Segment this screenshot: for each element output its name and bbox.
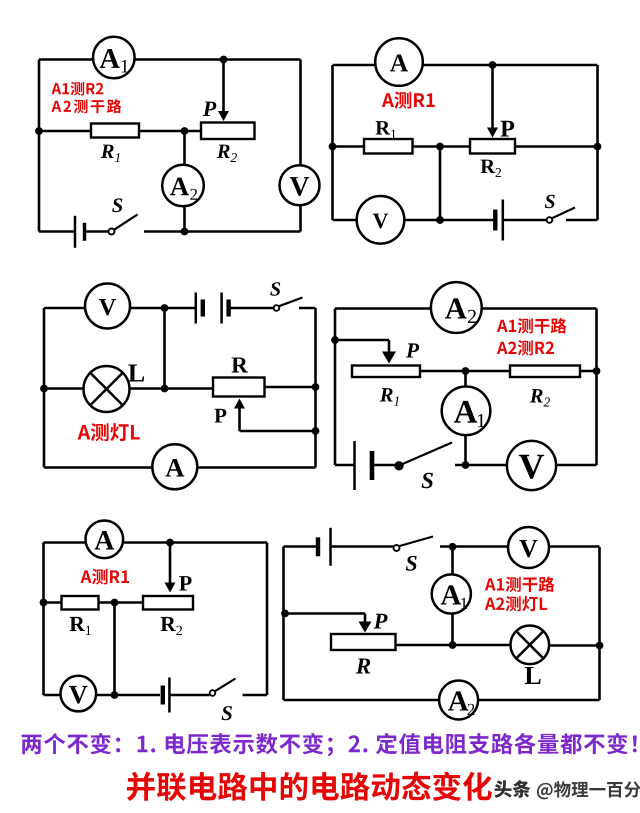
red note A measures lamp L xyxy=(78,423,140,441)
circuit 1 wire left vertical xyxy=(38,60,41,232)
circuit 5 wire top horizontal xyxy=(44,541,268,544)
rheostat R slider arrow circuit 3 (up) xyxy=(234,399,245,432)
wire lamp row left xyxy=(44,387,84,390)
node slider tap circuit 1 xyxy=(220,56,228,64)
wire slider tap horizontal circuit 6 xyxy=(285,612,365,615)
label P circuit 4 xyxy=(406,343,419,357)
red note A2 measures lamp L circuit 6 xyxy=(485,596,547,611)
label S circuit 6 xyxy=(406,556,417,571)
node left middle circuit 5 xyxy=(40,599,48,607)
voltmeter V circuit 6 xyxy=(508,527,549,568)
wire R to right circuit 3 xyxy=(265,386,316,389)
switch pivot circuit 3 xyxy=(274,305,280,311)
lamp L circuit 6 xyxy=(511,626,550,665)
wire right vertical circuit 5 xyxy=(266,543,269,696)
wire bottom left segment circuit 4 xyxy=(335,464,355,467)
node slider tap circuit 2 xyxy=(489,61,497,69)
wire battery to switch circuit 4 xyxy=(372,464,395,467)
ammeter A circuit 3 xyxy=(152,444,197,489)
label S circuit 1 xyxy=(112,198,122,212)
node left middle circuit 1 xyxy=(35,127,43,135)
node left lamp row xyxy=(40,385,48,393)
circuit 4 wire left vertical xyxy=(334,309,337,466)
purple summary text xyxy=(22,733,637,756)
node top junction circuit 3 xyxy=(161,304,169,312)
wire lamp to right circuit 6 xyxy=(549,644,600,647)
watermark toutiao xyxy=(494,780,530,798)
wire center vertical circuit 5 xyxy=(113,603,116,696)
voltmeter V circuit 2 xyxy=(357,196,405,244)
wire R2 to right circuit 2 xyxy=(515,145,598,148)
wire switch to right circuit 2 xyxy=(566,219,598,222)
voltmeter V circuit 4 xyxy=(507,441,556,490)
ammeter A2 xyxy=(162,165,204,207)
switch blade circuit 4 xyxy=(403,443,453,465)
node lamp row junction xyxy=(161,385,169,393)
wire right vertical circuit 4 xyxy=(595,309,598,466)
label L circuit 6 xyxy=(525,667,541,684)
wire R1 to R2 circuit 5 xyxy=(99,601,144,604)
switch blade circuit 3 xyxy=(279,298,303,307)
circuit 2 wire top horizontal xyxy=(333,64,598,67)
node slider tap circuit 6 xyxy=(281,610,289,618)
wire switch to right circuit 4 xyxy=(455,464,597,467)
circuit 1 wire top horizontal xyxy=(39,58,301,61)
label R1 circuit 2 xyxy=(376,121,391,134)
wire A1 branch circuit 6 xyxy=(451,547,454,646)
ammeter A circuit 5 xyxy=(86,521,124,559)
switch pivot circuit 5 xyxy=(210,690,216,696)
ammeter A circuit 2 xyxy=(375,38,423,86)
label P circuit 5 xyxy=(179,576,191,590)
wire bottom circuit 3 xyxy=(44,466,316,469)
red note A1 measures main branch circuit 4 xyxy=(497,318,567,334)
circuit 6 wire top left segment xyxy=(284,545,319,548)
red note A2 measures R2 circuit 4 xyxy=(497,340,554,355)
label P circuit 2 xyxy=(501,121,515,137)
wire lamp to junction circuit 3 xyxy=(130,387,214,390)
switch pivot filled circuit 4 xyxy=(394,461,403,470)
label R1 circuit 1 xyxy=(101,145,114,158)
wire bottom left segment circuit 2 xyxy=(333,219,496,222)
circuit 5 wire left vertical xyxy=(42,543,45,696)
rheostat R1 circuit 4 xyxy=(352,366,420,378)
battery cell 1 circuit 3 xyxy=(196,293,203,324)
battery circuit 2 xyxy=(495,200,503,241)
wire right vertical circuit 6 xyxy=(598,547,601,700)
label R2 circuit 2 xyxy=(481,160,496,173)
node A2 branch bottom xyxy=(181,228,189,236)
label R2 circuit 1 xyxy=(217,145,230,158)
resistor R1 circuit 5 xyxy=(62,596,99,610)
circuit 3 wire top left segment xyxy=(44,307,196,310)
resistor R2 circuit 4 xyxy=(510,366,580,378)
label R1 circuit 4 xyxy=(380,388,393,401)
red title xyxy=(127,772,492,801)
ammeter A2 circuit 6 xyxy=(439,681,478,720)
wire right vertical circuit 1 xyxy=(299,60,302,232)
battery circuit 4 xyxy=(355,441,373,490)
wire switch to corner circuit 3 xyxy=(299,307,316,310)
label R circuit 3 xyxy=(232,357,248,372)
ammeter A2 circuit 4 xyxy=(431,282,482,333)
label S circuit 3 xyxy=(270,282,280,295)
node right middle circuit 4 xyxy=(593,367,601,375)
ammeter A1 circuit 6 xyxy=(432,574,471,613)
rheostat R2 circuit 2 xyxy=(470,139,515,154)
wire bottom circuit 6 xyxy=(284,699,600,702)
red note A1 measures R2 xyxy=(52,82,104,96)
wire switch to junction circuit 6 xyxy=(440,545,600,548)
rheostat R2 circuit 5 xyxy=(143,596,193,610)
voltmeter V circuit 3 xyxy=(85,284,130,329)
wire V-row to lamp row link xyxy=(163,308,166,389)
resistor R1 circuit 1 xyxy=(91,124,139,138)
red note A2 measures main branch xyxy=(52,99,122,113)
node right slider row circuit 3 xyxy=(312,427,320,435)
node A1 top junction circuit 6 xyxy=(449,543,457,551)
wire battery to switch circuit 2 xyxy=(503,219,547,222)
wire R1 to R2 circuit 2 xyxy=(413,145,471,148)
wire R1 to junction circuit 4 xyxy=(420,370,510,373)
wire switch to right circuit 5 xyxy=(243,694,268,697)
node middle junction circuit 5 xyxy=(111,599,119,607)
wire R to lamp circuit 6 xyxy=(396,644,512,647)
switch blade circuit 2 xyxy=(552,208,575,219)
wire slider tap horizontal circuit 4 xyxy=(335,339,389,342)
label R1 circuit 5 xyxy=(70,617,85,631)
red note A measures R1 circuit 5 xyxy=(81,569,130,585)
wire center vertical circuit 2 xyxy=(439,147,442,221)
rheostat R circuit 6 xyxy=(331,634,396,650)
voltmeter V circuit 1 xyxy=(280,165,320,205)
switch blade circuit 5 xyxy=(215,679,236,692)
node middle junction circuit 4 xyxy=(462,367,470,375)
node bottom junction circuit 5 xyxy=(111,691,119,699)
circuit 2 wire left vertical xyxy=(331,65,334,220)
label P circuit 1 xyxy=(203,102,217,116)
switch pivot circuit 1 xyxy=(109,229,115,235)
circuit 4 wire top horizontal xyxy=(335,307,597,310)
ammeter A1 circuit 4 xyxy=(442,387,491,436)
battery cell 2 circuit 3 xyxy=(222,293,229,324)
node A1 bottom circuit 4 xyxy=(462,461,470,469)
node A2 branch top xyxy=(181,127,189,135)
rheostat R2 slider arrow circuit 2 xyxy=(487,65,498,138)
wire A1 branch circuit 4 xyxy=(464,371,467,465)
label S circuit 5 xyxy=(222,706,232,720)
voltmeter V circuit 5 xyxy=(61,676,97,712)
wire battery to switch circuit 1 xyxy=(85,230,109,233)
circuit 3 wire left vertical xyxy=(43,308,46,468)
label S circuit 4 xyxy=(422,473,433,488)
switch blade circuit 6 xyxy=(400,537,434,547)
wire middle left segment circuit 2 xyxy=(333,145,365,148)
battery circuit 1 xyxy=(75,216,85,248)
wire middle left segment circuit 5 xyxy=(44,601,62,604)
switch pivot circuit 6 xyxy=(394,545,400,551)
node bottom junction circuit 2 xyxy=(436,216,444,224)
label R circuit 6 xyxy=(356,658,370,673)
wire bottom left segment circuit 1 xyxy=(39,230,75,233)
wire middle left segment circuit 1 xyxy=(39,130,91,133)
wire switch to right circuit 1 xyxy=(144,230,301,233)
wire battery to switch circuit 5 xyxy=(169,694,209,697)
battery circuit 6 xyxy=(318,528,331,566)
rheostat R slider arrow circuit 6 xyxy=(359,614,372,633)
ammeter A1 xyxy=(93,37,135,79)
node slider tap circuit 4 xyxy=(331,336,339,344)
rheostat R circuit 3 xyxy=(213,378,265,397)
wire right vertical circuit 3 xyxy=(314,308,317,468)
switch blade circuit 1 xyxy=(114,215,138,230)
label R2 circuit 4 xyxy=(530,389,543,402)
wire A2 branch xyxy=(183,131,186,232)
resistor R1 circuit 2 xyxy=(364,139,413,154)
wire R2 to right circuit 4 xyxy=(580,370,597,373)
red note A measures R1 circuit 2 xyxy=(382,91,435,108)
node left middle circuit 2 xyxy=(329,143,337,151)
node right lamp row xyxy=(312,383,320,391)
label S circuit 2 xyxy=(545,195,555,208)
label R2 circuit 5 xyxy=(161,617,176,631)
wire slider to right circuit 3 xyxy=(240,430,316,433)
wire right vertical circuit 2 xyxy=(596,65,599,220)
label P circuit 3 xyxy=(214,409,226,423)
node middle junction circuit 2 xyxy=(436,143,444,151)
wire R1 to R2 circuit 1 xyxy=(139,130,201,133)
label P circuit 6 xyxy=(374,614,388,629)
node right middle circuit 2 xyxy=(594,143,602,151)
node A1 bottom junction circuit 6 xyxy=(449,641,457,649)
lamp L circuit 3 xyxy=(84,366,130,412)
switch pivot circuit 2 xyxy=(547,217,553,223)
rheostat R2 slider arrow circuit 5 xyxy=(165,543,176,593)
battery circuit 5 xyxy=(163,678,170,713)
wire battery to switch circuit 3 xyxy=(229,307,274,310)
rheostat R1 slider arrow circuit 4 xyxy=(382,340,396,364)
circuit 6 wire left vertical xyxy=(282,547,285,701)
rheostat R2 slider arrow circuit 1 xyxy=(218,60,229,122)
wire bottom circuit 5 xyxy=(44,694,161,697)
red note A1 measures main branch circuit 6 xyxy=(485,576,555,592)
label L circuit 3 xyxy=(128,364,144,381)
rheostat R2 circuit 1 xyxy=(201,123,255,140)
node right lamp row circuit 6 xyxy=(596,642,604,650)
node slider tap circuit 5 xyxy=(166,539,174,547)
wire battery to switch circuit 6 xyxy=(331,545,394,548)
